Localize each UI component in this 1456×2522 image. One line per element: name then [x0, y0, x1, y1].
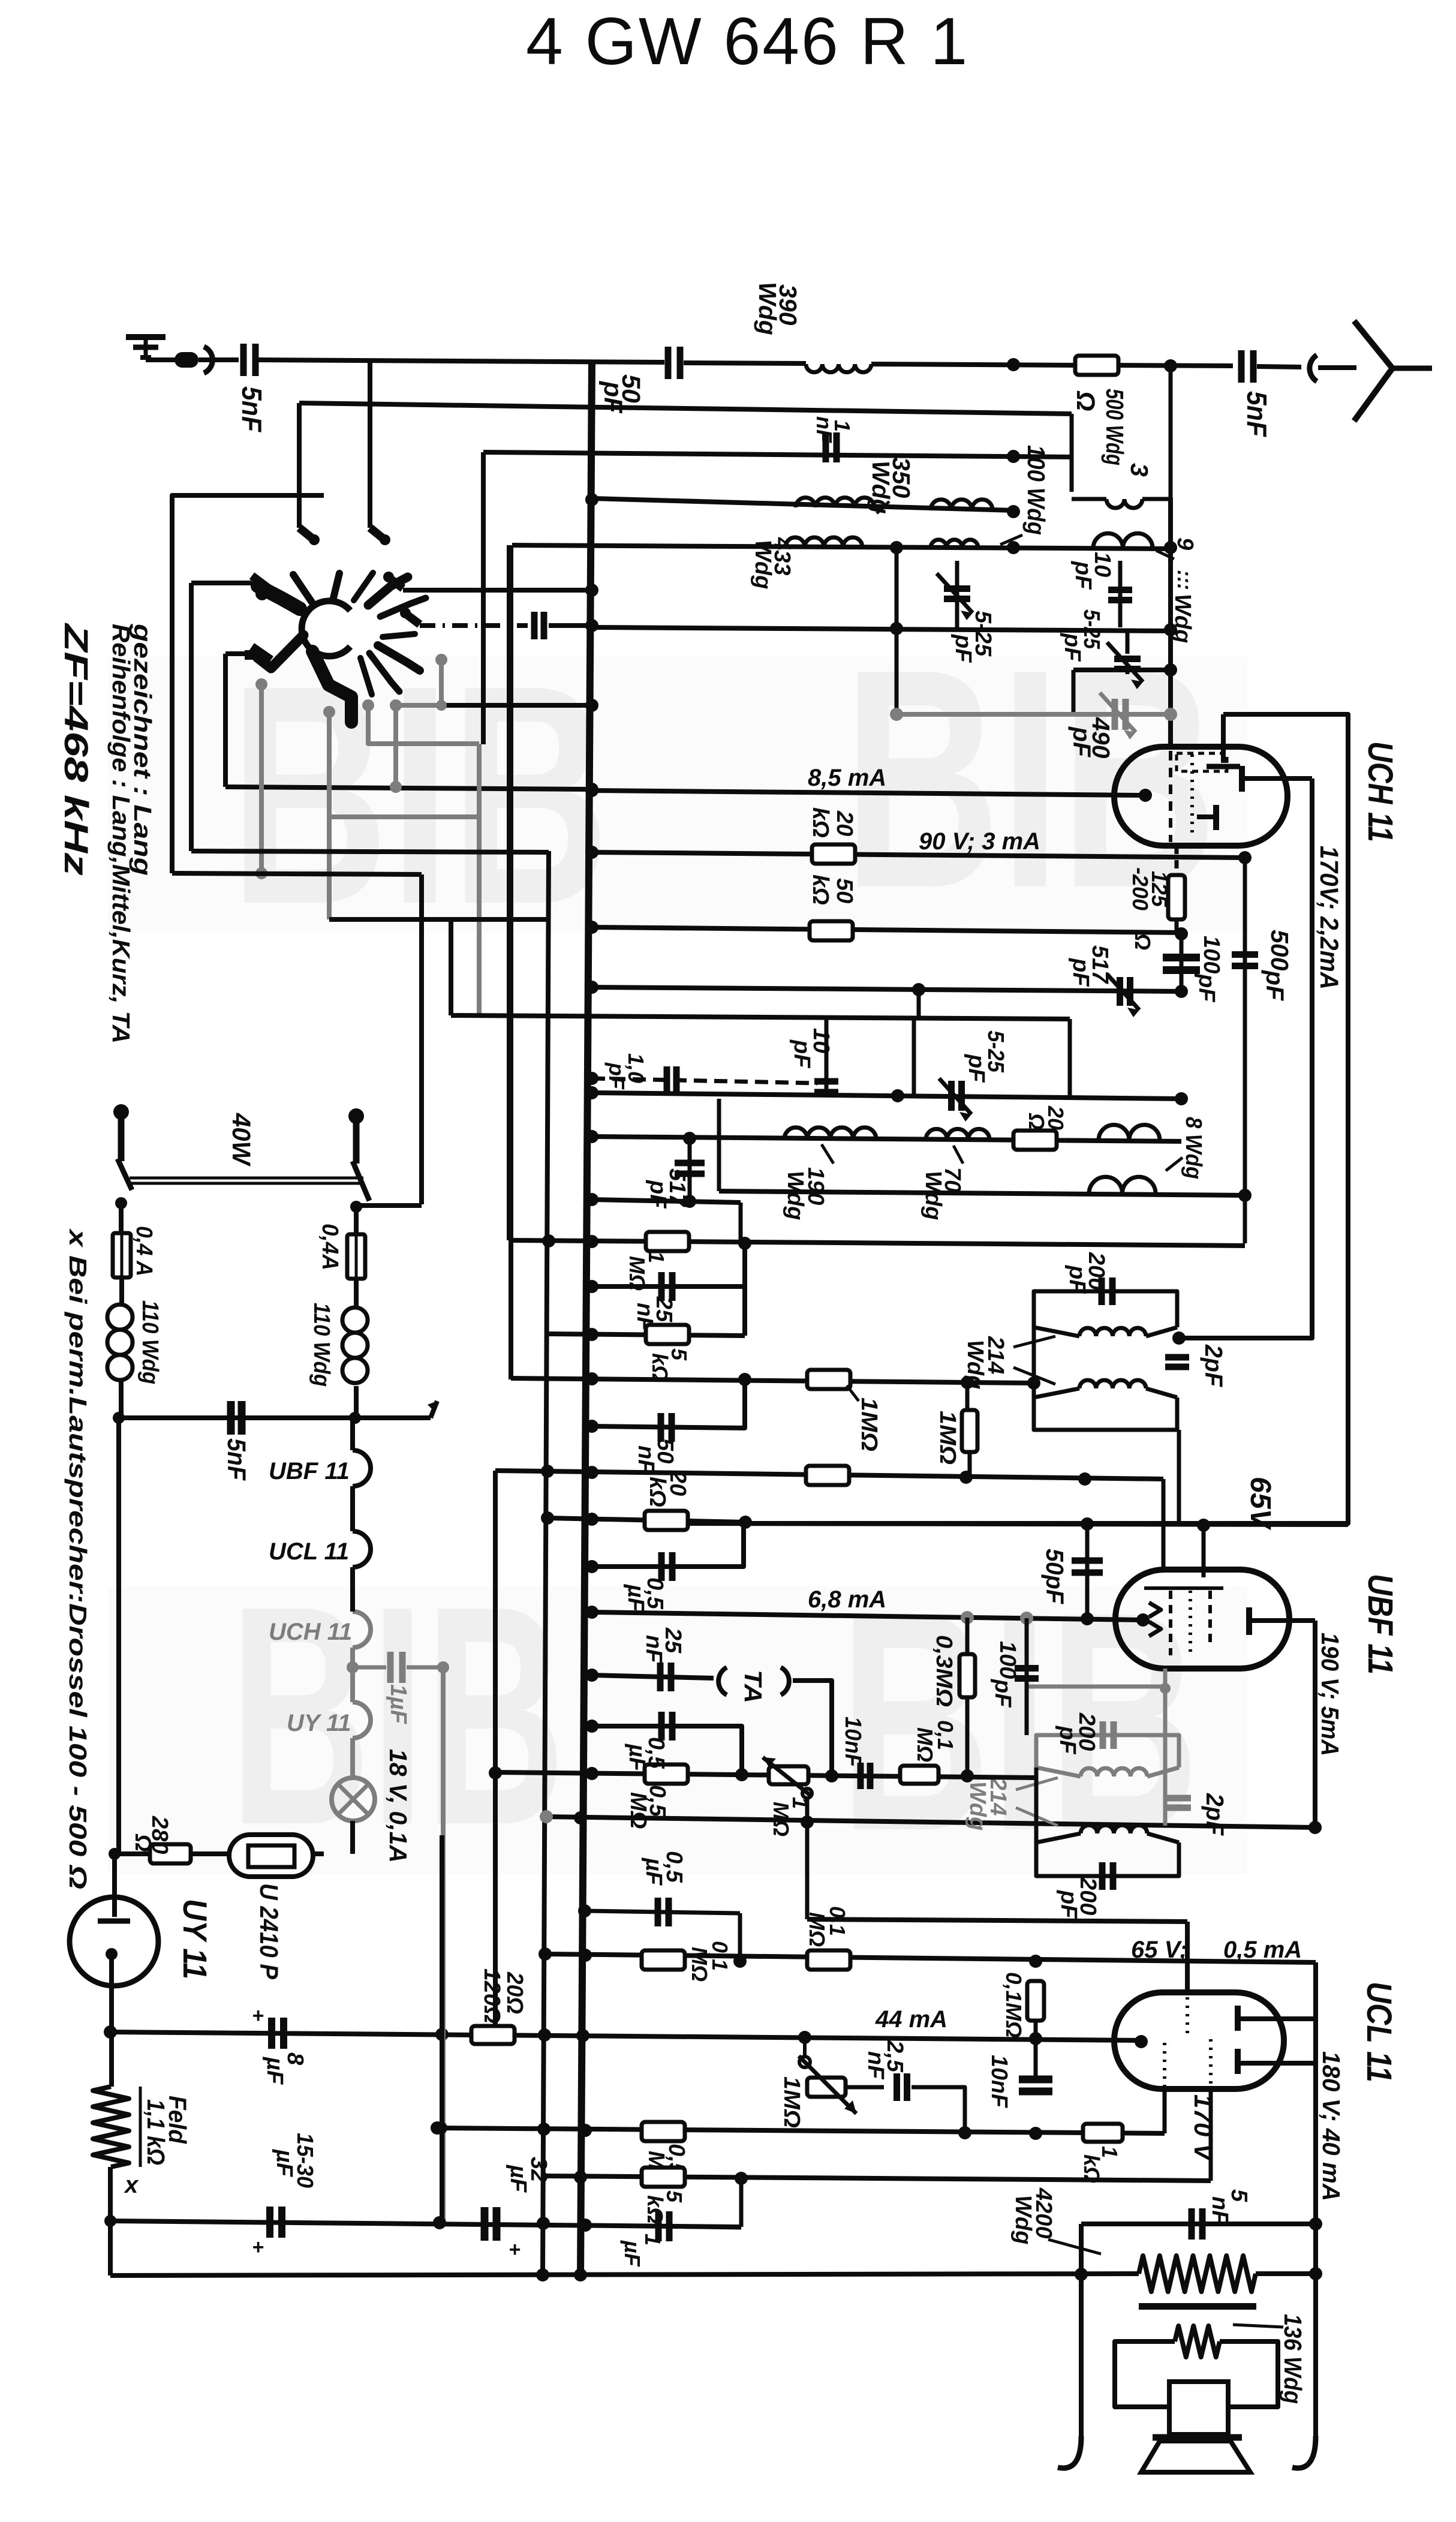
coil 500Wdg secondary [1072, 497, 1106, 501]
IF transformer 1 frame [1034, 1291, 1177, 1327]
wire anode loop right [1179, 778, 1312, 1338]
wire 5nF row [1081, 2222, 1316, 2226]
wire [419, 874, 424, 1204]
UCL11 pentode anode [1235, 2006, 1241, 2031]
node junction [585, 584, 598, 597]
wire volume feed [493, 1471, 498, 2027]
node junction [585, 619, 598, 632]
svg-text:20: 20 [832, 810, 857, 836]
node junction [115, 1197, 127, 1209]
svg-text:BIB: BIB [840, 1547, 1199, 1896]
svg-text:pF: pF [950, 634, 976, 663]
svg-text:Ω: Ω [1071, 390, 1100, 411]
resistor 0.3M [965, 1618, 970, 1776]
capacitor 5nF (antenna series) [1238, 350, 1245, 383]
wire corner [509, 545, 513, 1379]
svg-text:1,1 kΩ: 1,1 kΩ [142, 2099, 170, 2165]
wire IFT1 to grid [1177, 1430, 1181, 1525]
resistor 500 Wdg 3 Ohm (antenna coil primary) [1075, 356, 1118, 375]
wire mixer row [592, 627, 1171, 631]
svg-text:Wdg: Wdg [783, 1171, 808, 1220]
svg-text:pF: pF [1261, 970, 1289, 1001]
wire [871, 364, 1076, 365]
svg-text:UBF 11: UBF 11 [269, 1458, 350, 1484]
node junction [585, 784, 598, 797]
wire [223, 654, 228, 787]
svg-text:µF: µF [620, 2240, 645, 2267]
trimmer capacitor 517pF [1117, 977, 1123, 1006]
UBF11 internals [1169, 1591, 1172, 1655]
wire B+ down [109, 1954, 114, 2087]
switch contact [299, 528, 312, 538]
wire chain to lamp [350, 1738, 355, 1778]
node junction [1164, 708, 1177, 721]
svg-text:180 V; 40 mA: 180 V; 40 mA [1317, 2051, 1345, 2201]
node junction [585, 981, 598, 994]
resistor 1M (AVC) [646, 1232, 689, 1251]
svg-text:1µF: 1µF [386, 1684, 411, 1725]
svg-text:pF: pF [1068, 726, 1096, 757]
svg-text:500 Wdg: 500 Wdg [1101, 389, 1129, 465]
switch contact stub B (gray) [390, 699, 402, 711]
osc box left [912, 1018, 916, 1095]
resistor 20 Ohm box [1013, 1131, 1057, 1150]
svg-text:pF: pF [1060, 633, 1085, 662]
svg-text:5-: 5- [970, 611, 995, 631]
antenna symbol [1354, 321, 1392, 421]
main ground bus [580, 360, 592, 2275]
trimmer capacitor 5-25pF (band b) [1126, 631, 1130, 654]
resistor 0.5M [645, 1765, 688, 1784]
svg-text:5nF: 5nF [236, 386, 267, 433]
svg-text:pF: pF [990, 1679, 1015, 1708]
TA jack [718, 1667, 727, 1695]
wire padder dashed row [592, 1078, 817, 1083]
svg-text:1MΩ: 1MΩ [856, 1397, 882, 1451]
wire cathode up [1163, 2089, 1167, 2133]
node junction [1007, 358, 1020, 371]
dial lamp 18V 0.1A [332, 1778, 375, 1821]
switch contact [408, 615, 420, 624]
wire osc row to bus [225, 787, 592, 789]
svg-text:40W: 40W [227, 1113, 255, 1167]
svg-text:MΩ: MΩ [769, 1802, 793, 1836]
barretter U2410P [229, 1835, 313, 1877]
wire speaker left [1079, 2224, 1084, 2444]
resistor 20/120 Ohm [471, 2026, 515, 2044]
wire AVC row [592, 498, 1013, 510]
UCH11 heptode anode [1239, 766, 1245, 792]
capacitor 10nF (TA) [858, 1763, 864, 1789]
svg-text:U 2410 P: U 2410 P [254, 1883, 283, 1979]
capacitor 517pF (osc series) [688, 1138, 692, 1201]
svg-text:20Ω: 20Ω [502, 1971, 527, 2014]
wire detector row [495, 1471, 1163, 1479]
node junction [1007, 541, 1020, 554]
wire lamp down [350, 1821, 355, 1854]
svg-text:6,8 mA: 6,8 mA [808, 1586, 886, 1613]
svg-text:Ω: Ω [130, 1833, 155, 1852]
wire [449, 919, 453, 1015]
UY11 anode [106, 1948, 118, 1960]
wire osc feedback row (517pF) [592, 987, 1181, 991]
resistor 20k [812, 844, 855, 864]
svg-text:MΩ: MΩ [687, 1947, 712, 1982]
coil 8 Wdg b [1089, 1177, 1156, 1194]
mains switch bar 40W [130, 1177, 363, 1180]
capacitor 5nF (antenna input) [240, 344, 247, 376]
svg-text:0,4A: 0,4A [317, 1224, 342, 1270]
svg-text:0,4 A: 0,4 A [131, 1226, 157, 1276]
switch contact stub E (gray) [435, 654, 447, 666]
node junction [1164, 623, 1177, 636]
coil 110 Wdg left [107, 1304, 133, 1330]
svg-text:Wdg: Wdg [867, 461, 895, 514]
node junction [890, 541, 903, 554]
svg-text:UCL 11: UCL 11 [269, 1538, 349, 1565]
svg-text:2pF: 2pF [1200, 1344, 1228, 1387]
svg-text::::: ::: [1173, 570, 1196, 590]
svg-text:10nF: 10nF [986, 2055, 1012, 2109]
node junction [1164, 359, 1177, 372]
resistor 0.1M a [642, 1950, 685, 1970]
svg-text:MΩ: MΩ [625, 1792, 651, 1829]
switch contact [391, 579, 403, 588]
wire AVC long row [511, 1240, 1245, 1246]
wire [917, 991, 921, 1018]
coil 390 Wdg [806, 364, 871, 372]
resistor 1k [1083, 2124, 1123, 2142]
capacitor 1nF [823, 432, 829, 462]
svg-text:+: + [252, 2004, 264, 2027]
output transformer secondary 136 Wdg [1175, 2326, 1220, 2357]
resistor 1M b (vertical) [965, 1382, 970, 1411]
svg-text:Wdg: Wdg [750, 540, 775, 589]
svg-text:Wdg: Wdg [920, 1171, 946, 1220]
wire filter row [110, 2221, 741, 2227]
speaker [1169, 2382, 1228, 2434]
capacitor 10pF [1118, 561, 1123, 627]
svg-text:50pF: 50pF [1041, 1549, 1069, 1604]
wire row 5k [549, 1334, 745, 1336]
potentiometer 1M (feedback) [799, 2057, 810, 2067]
svg-text:Wdg: Wdg [962, 1340, 988, 1389]
node junction [890, 708, 903, 721]
svg-text:x Bei perm.Lautsprecher:Drosse: x Bei perm.Lautsprecher:Drossel 100 - 50… [64, 1228, 92, 1889]
node junction [1238, 1189, 1252, 1202]
UCH11 cathode [1139, 789, 1152, 802]
svg-text:ZF=468 kHz: ZF=468 kHz [58, 622, 95, 876]
wire gray branch [1027, 1685, 1165, 1689]
svg-text:8 Wdg: 8 Wdg [1181, 1117, 1206, 1179]
resistor 0.1M (TA) [900, 1766, 938, 1784]
node junction [585, 921, 598, 934]
node junction [585, 1193, 598, 1206]
switch contact stub D (gray) [323, 706, 335, 718]
wire grid bus 2 [299, 403, 1072, 414]
resistor 1M c [806, 1466, 849, 1485]
wire pot stub [803, 2037, 807, 2057]
coil 433 Wdg [786, 537, 862, 547]
svg-text:µF: µF [623, 1584, 648, 1613]
wire row osc coupling [451, 1015, 1070, 1019]
UCL11 internals [1163, 2043, 1166, 2086]
UBF11 cathode [1136, 1613, 1150, 1627]
svg-text:µF: µF [506, 2165, 531, 2193]
svg-text:4 GW 646 R 1: 4 GW 646 R 1 [526, 4, 969, 79]
wire grid corner [1185, 1922, 1190, 1995]
tube UCL11 envelope [1114, 1992, 1284, 2089]
wire 0.1M row [545, 1954, 1316, 1962]
svg-text:nF: nF [863, 2051, 888, 2080]
UCH11 triode grid [1213, 805, 1219, 830]
svg-text:Wdg: Wdg [1010, 2195, 1036, 2244]
svg-text:UY 11: UY 11 [176, 1899, 214, 1979]
resistor 0.1M b [807, 1950, 850, 1970]
trimmer capacitor 5-25pF (osc) [948, 1081, 955, 1111]
capacitor 5nF (tone) [1189, 2208, 1195, 2240]
coil 70 Wdg (osc) [931, 540, 978, 548]
wire cathode row 44mA [110, 2032, 1141, 2040]
svg-text:UY 11: UY 11 [287, 1710, 351, 1736]
svg-text:kΩ: kΩ [808, 874, 833, 905]
switch contact [370, 528, 383, 538]
wire (gray) [477, 744, 482, 1015]
mains plug left prong [118, 1108, 125, 1161]
switch contact left2 [225, 651, 252, 656]
node junction [585, 493, 598, 506]
svg-text:kΩ: kΩ [808, 807, 833, 838]
svg-text:Wdg: Wdg [965, 1781, 990, 1830]
wire tuning cap row (gray) [897, 712, 1171, 717]
switch contact stub A (gray) [362, 699, 374, 711]
svg-text:170V; 2,2mA: 170V; 2,2mA [1314, 846, 1343, 990]
capacitor 100pF (UBF) [1025, 1618, 1029, 1735]
capacitor 50pF [665, 347, 672, 379]
coupling coil frame [1070, 414, 1074, 492]
svg-text:170 V: 170 V [1189, 2094, 1217, 2162]
capacitor 500pF [1243, 858, 1247, 1195]
coil 190 Wdg [784, 1128, 876, 1139]
svg-text:5nF: 5nF [222, 1438, 251, 1481]
wire [1118, 365, 1233, 366]
svg-text:100: 100 [995, 1641, 1020, 1679]
capacitor 25nF (osc cathode) [592, 1243, 745, 1286]
IFT1 coil b 214 Wdg [1079, 1380, 1146, 1388]
fuse 0.4A left [113, 1233, 131, 1277]
svg-text:pF: pF [1064, 1265, 1090, 1294]
wire [739, 2177, 744, 2227]
wire band row [403, 588, 592, 593]
node junction [1164, 541, 1177, 554]
svg-text:0,1MΩ: 0,1MΩ [1001, 1972, 1026, 2038]
UCL11 triode anode [1235, 2049, 1241, 2074]
wire [895, 548, 899, 714]
node junction [542, 1234, 555, 1248]
node junction [733, 1955, 747, 1968]
node junction [1007, 450, 1020, 463]
potentiometer 1M (volume) [769, 1766, 808, 1784]
svg-text:pF: pF [1068, 958, 1093, 987]
node junction [585, 1072, 598, 1085]
wire UBF triode grid (gray) [1163, 1669, 1168, 1826]
coil 100 Wdg [931, 500, 992, 510]
wire wiper stub [802, 1788, 812, 1798]
resistor 125-200 Ohm [1175, 846, 1179, 875]
svg-text:MΩ: MΩ [805, 1912, 829, 1947]
band switch wafer frame [172, 495, 324, 873]
svg-text:µF: µF [262, 2057, 287, 2085]
svg-text:0,5 mA: 0,5 mA [1223, 1937, 1302, 1963]
wire osc grid row [592, 927, 1181, 933]
capacitor 8uF [268, 2018, 275, 2049]
field coil Feld 1.1k [93, 2087, 129, 2167]
svg-text:UCH 11: UCH 11 [1361, 741, 1400, 842]
wire heater rail [119, 1415, 355, 1420]
capacitor 10nF (UCL) [1019, 2076, 1052, 2084]
svg-text:kΩ: kΩ [645, 1477, 670, 1507]
svg-text:TA: TA [739, 1670, 767, 1703]
resistor 5k [642, 2168, 685, 2187]
node junction [585, 1130, 598, 1143]
svg-text:pF: pF [1055, 1726, 1080, 1755]
wire volume row [495, 1772, 1036, 1778]
svg-text:90 V; 3 mA: 90 V; 3 mA [919, 828, 1040, 855]
resistor 0.5M [642, 2122, 685, 2141]
antenna plug J1 [175, 352, 198, 368]
switch contact stub C (gray) [255, 678, 267, 690]
IFT1 coil a 214 Wdg [1079, 1328, 1146, 1336]
wire left rail down [116, 1418, 121, 1854]
UY11 cathode [112, 1854, 117, 1917]
wire osc coil row 2 [719, 1191, 1245, 1195]
wire top bus [258, 360, 664, 362]
wire row 1419 [191, 851, 549, 852]
svg-text:65V: 65V [1244, 1477, 1276, 1531]
IFT2 coil b 214 Wdg [1081, 1825, 1147, 1833]
svg-text:pF: pF [789, 1039, 814, 1069]
svg-text:100: 100 [1199, 936, 1224, 973]
wire 65V row [688, 1523, 1348, 1525]
capacitor 0.5uF b [592, 1726, 742, 1775]
wire [108, 2167, 113, 2275]
svg-text:1MΩ: 1MΩ [935, 1411, 960, 1465]
wire TA row [592, 1675, 714, 1678]
capacitor 2pF (IFT2) [1167, 1795, 1191, 1802]
wire 6.8mA cathode row [592, 1612, 1143, 1620]
mains plug right prong [353, 1113, 360, 1164]
wire UCL grid row [807, 1919, 1187, 1922]
output transformer primary 4200 Wdg [1139, 2256, 1256, 2292]
UBF11 anode [1246, 1607, 1252, 1635]
wire hook left [1058, 2436, 1081, 2468]
wire [739, 1203, 743, 1242]
wire screen row [543, 2176, 1211, 2181]
UCH11 triode anode bar [1221, 714, 1226, 763]
wire [684, 363, 806, 363]
svg-text:110 Wdg: 110 Wdg [309, 1303, 334, 1387]
wire [119, 1379, 124, 1418]
node junction [585, 1086, 598, 1099]
svg-text:Reihenfolge : Lang,Mittel,Kurz: Reihenfolge : Lang,Mittel,Kurz, TA [107, 624, 135, 1044]
svg-text:50: 50 [832, 878, 857, 903]
svg-text:Wdg: Wdg [754, 282, 781, 335]
transformer core [1139, 2303, 1256, 2310]
node junction [585, 846, 598, 859]
svg-text:pF: pF [604, 1062, 629, 1090]
wire UBF screen [1202, 1525, 1206, 1577]
svg-text:1MΩ: 1MΩ [779, 2076, 804, 2128]
decorative watermark [108, 657, 1247, 933]
svg-text:µF: µF [272, 2149, 297, 2178]
wire grid bus 3 [483, 452, 1072, 457]
capacitor 15-30uF [266, 2207, 273, 2238]
capacitor 5nF (mains) [227, 1401, 235, 1435]
coil 9 Wdg [1093, 533, 1153, 548]
IF transformer 2 frame [1036, 1735, 1179, 1767]
svg-text:18 V, 0,1A: 18 V, 0,1A [384, 1749, 412, 1863]
svg-text:pF: pF [964, 1054, 989, 1083]
svg-text:pF: pF [645, 1180, 670, 1209]
wire to chassis arrow [355, 1415, 431, 1420]
svg-text:44 mA: 44 mA [875, 2006, 947, 2033]
wire 90V row (triode grid) [592, 852, 1245, 858]
node junction [1164, 663, 1177, 677]
capacitor 0.5uF c [585, 1911, 740, 1913]
wire [368, 360, 372, 528]
wire [1243, 858, 1247, 1243]
capacitor 0.5uF a [592, 1522, 744, 1567]
svg-text:-200: -200 [1128, 867, 1153, 910]
capacitor 2.5nF [846, 2085, 884, 2090]
wire padder (dash-dot) [420, 623, 528, 628]
tube UCH11 envelope [1114, 747, 1287, 846]
svg-text:µF: µF [624, 1744, 649, 1772]
wire [189, 583, 194, 851]
svg-text:120Ω: 120Ω [479, 1968, 504, 2024]
switch contact left3 [245, 650, 261, 660]
wire 8.5mA row (mixer grid) [592, 790, 1145, 795]
svg-text:2pF: 2pF [1201, 1793, 1229, 1836]
osc box right [1068, 1019, 1072, 1095]
band switch rotor [302, 601, 350, 656]
svg-text:5nF: 5nF [1241, 391, 1273, 438]
UCH11 screen box (dashed) [1177, 753, 1227, 771]
fuse 0.4A right [347, 1234, 365, 1279]
wire [742, 1243, 747, 1336]
wire oscillator row [512, 545, 1171, 549]
wire vertical 806 [481, 452, 486, 744]
secondary loop [1115, 2341, 1175, 2407]
tube UY11 envelope [70, 1897, 158, 1986]
wire bottom rail [110, 2274, 1139, 2275]
resistor 50k [810, 921, 853, 940]
capacitor 50nF [592, 1379, 745, 1428]
svg-text:nF: nF [1207, 2196, 1232, 2225]
wire [441, 1667, 446, 2223]
wire TA to pot [793, 1681, 832, 1776]
heater bump UY 11 [353, 1702, 371, 1738]
wire second bus [543, 851, 549, 2274]
svg-text:µF: µF [641, 1857, 666, 1886]
switch contact upper [191, 581, 252, 585]
wire switch feed [356, 1203, 422, 1208]
wire [1073, 668, 1171, 672]
resistor 1M a [807, 1370, 850, 1389]
variable capacitor 490pF [1112, 699, 1118, 730]
wire gray row 1362 [329, 814, 479, 819]
capacitor padder [531, 612, 538, 639]
